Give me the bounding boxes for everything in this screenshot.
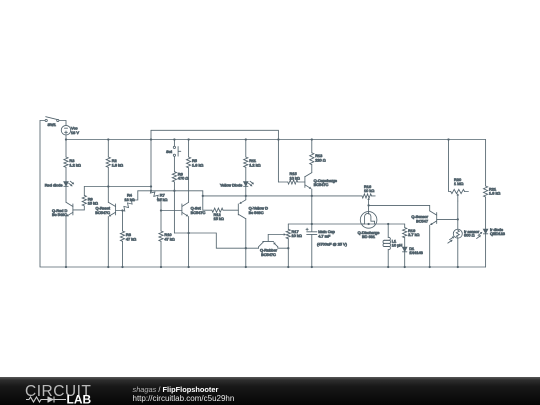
wire R3 to red diode (65, 167, 67, 181)
transistor Q-Red D Bc546C (52, 202, 84, 217)
node Q-Sensor emitter ground (429, 266, 431, 268)
wire Q-Red emitter to ground (65, 217, 67, 267)
wire left rail and ground rail (40, 121, 486, 268)
svg-text:QED123: QED123 (490, 231, 505, 236)
svg-text:470 Ω: 470 Ω (178, 176, 189, 181)
wire capcharge column to cap (311, 196, 313, 231)
potentiometer R16 10k (362, 184, 375, 198)
wire Q-Capcharge emitter to wire C (311, 189, 313, 196)
node wireA-R2 (107, 185, 109, 187)
wire R15 to Q-Capcharge base (298, 181, 305, 183)
resistor R6 470ohm (172, 171, 188, 182)
node bypass right drop rail junction (277, 138, 279, 140)
wire Q-Sensor emitter to ground (429, 225, 431, 267)
node R10 ground (160, 266, 162, 268)
node R2-rail (107, 138, 109, 140)
transistor Q-Yellow D Bc546C (238, 200, 268, 219)
transistor Q-Set BC547C (182, 202, 206, 216)
resistor R8 47k (120, 231, 136, 241)
wire red diode to Q-Red collector (65, 187, 67, 203)
wire R2 column (107, 140, 109, 203)
wire Q-Set emitter to ground (188, 217, 190, 267)
wire Q-Rubber base to R17 wiper arrow (268, 234, 284, 236)
svg-text:600 Ω: 600 Ω (464, 233, 475, 238)
pushbutton Set (166, 140, 181, 157)
svg-text:SW1: SW1 (48, 122, 56, 127)
wire L1 leads (387, 224, 389, 267)
inductor L1 10uH (383, 237, 402, 249)
wire R20 wiper to sensor column (457, 196, 459, 202)
wire R17 top lead (287, 224, 289, 229)
node wireD-cap column (311, 223, 313, 225)
resistor R13 220ohm (310, 153, 326, 165)
node R17 ground (287, 266, 289, 268)
node Q-Yellow emitter ground (245, 266, 247, 268)
wire R4 to wire B (134, 191, 138, 200)
wire set bypass top line (151, 130, 278, 182)
svg-text:Yellow Diode: Yellow Diode (220, 183, 242, 188)
wire set column down (173, 156, 175, 233)
wire R8 column (122, 211, 124, 268)
svg-text:10 kΩ: 10 kΩ (292, 233, 302, 238)
node D1 ground (404, 266, 406, 268)
node Q-Reset emitter ground (107, 266, 109, 268)
wire Q-Reset emitter to ground (107, 217, 109, 267)
svg-text:BC547: BC547 (416, 218, 428, 223)
node R13-rail (311, 138, 313, 140)
svg-text:18 kΩ: 18 kΩ (124, 197, 134, 202)
wire discharge base to Q-Sensor collector (369, 205, 430, 211)
svg-text:18 V: 18 V (71, 130, 79, 135)
node cap ground (311, 266, 313, 268)
node col151-rail (150, 138, 152, 140)
svg-text:BC547C: BC547C (261, 252, 276, 257)
wire column 151 from bypass to wire B (150, 130, 152, 191)
wire R17 to ground (287, 239, 289, 267)
LED D-Yellow yellow diode (220, 181, 254, 187)
photoresistor Ir sensor 600ohm (448, 229, 480, 243)
resistor R7 18k diagonal (150, 191, 167, 202)
resistor R19 2.7k (403, 228, 420, 238)
node Q-Set base junction (160, 209, 162, 211)
node R8 ground (121, 266, 123, 268)
node R20-rail (447, 138, 449, 140)
svg-text:1 MΩ: 1 MΩ (454, 181, 463, 186)
transistor Q-Capcharge BC547C (305, 173, 337, 189)
wire bypass drop to R15 (278, 181, 287, 183)
node R17-rubber junction (287, 247, 289, 249)
node wireC start (202, 195, 204, 197)
svg-text:18 kΩ: 18 kΩ (157, 197, 167, 202)
svg-text:Set: Set (166, 149, 173, 154)
wire sensor to ground (457, 238, 459, 267)
svg-text:10 µH: 10 µH (392, 243, 403, 248)
svg-text:47 kΩ: 47 kΩ (126, 236, 136, 241)
trimmer R17 10k (286, 229, 302, 239)
svg-text:Red diode: Red diode (45, 182, 63, 187)
svg-text:Bc 546C: Bc 546C (249, 210, 264, 215)
wire Ir diode to ground rail end (485, 234, 487, 267)
node L1 ground (387, 266, 389, 268)
svg-text:1.8 kΩ: 1.8 kΩ (112, 162, 123, 167)
svg-text:1.8 kΩ: 1.8 kΩ (192, 162, 203, 167)
wire source to rail (65, 135, 67, 157)
resistor R2 1.8k (106, 157, 123, 167)
wire node C horizontal (203, 195, 362, 197)
wire R10 column (160, 211, 162, 268)
transistor Q-Discharge BD681 darlington (358, 212, 380, 240)
potentiometer R20 1M (451, 177, 469, 194)
resistor R5 1.8k (187, 157, 204, 168)
node wireB-col151 (150, 190, 152, 192)
resistor R3 1.2k (64, 157, 81, 167)
svg-text:2.7 kΩ: 2.7 kΩ (408, 232, 419, 237)
node source-rail junction (65, 138, 67, 140)
wire wireD corner to R19 and to D1 (404, 224, 406, 247)
node set-rail (173, 138, 175, 140)
wire R21 column (485, 140, 487, 229)
wire cap to ground (311, 235, 313, 267)
svg-text:220 Ω: 220 Ω (315, 157, 326, 162)
node sensor ground (457, 266, 459, 268)
node Q-Set emitter ground (187, 266, 189, 268)
node R5-rail (187, 138, 189, 140)
svg-text:4.7 mF: 4.7 mF (318, 233, 331, 238)
wire R7 to Q-Set base (161, 201, 182, 211)
node wireD-L1 (387, 223, 389, 225)
node wireA-col151 (150, 185, 152, 187)
wire node A horizontal (R9 to col151) (84, 186, 151, 188)
node wireC-yellow column (245, 195, 247, 197)
diode D1 1N4148 (403, 246, 423, 255)
wire R16 wiper to Q-Discharge base (368, 200, 370, 206)
svg-text:(4700uF @ 25 V): (4700uF @ 25 V) (317, 242, 348, 247)
transistor Q-Reset BC547C (95, 202, 122, 216)
wire node D horizontal (288, 223, 404, 225)
wire yellow diode to Q-Yellow (245, 187, 247, 200)
wire set column to staircase (174, 233, 258, 248)
wire R20 column from rail (449, 140, 451, 192)
resistor R15 10k (288, 171, 300, 184)
svg-text:1N4148: 1N4148 (409, 250, 423, 255)
LED Ir diode QED123 (477, 227, 505, 239)
resistor R4 18k diagonal (123, 192, 135, 211)
node wireC-capcharge emitter (311, 195, 313, 197)
svg-text:BD 681: BD 681 (362, 234, 375, 239)
node yellow emitter crossing y248 (245, 247, 247, 249)
wire top rail (66, 139, 486, 141)
svg-text:15 kΩ: 15 kΩ (214, 216, 224, 221)
svg-text:Bc 546C: Bc 546C (52, 212, 67, 217)
wire R12 to Q-Yellow base (223, 209, 238, 211)
svg-text:LAB: LAB (67, 393, 92, 405)
wire switch to source (59, 121, 66, 126)
wire column 202.8 and R12 feed (203, 191, 212, 210)
wire R5 column (188, 140, 190, 203)
svg-text:1.2 kΩ: 1.2 kΩ (249, 162, 260, 167)
node Q-Red emitter ground (65, 266, 67, 268)
switch SW1 (45, 117, 59, 127)
LED D-Red red diode (45, 181, 74, 187)
node wiper-sensor wire junction (367, 204, 369, 206)
node wireB-set column (173, 190, 175, 192)
wire D1 to ground (404, 252, 406, 267)
wire Q-Yellow emitter to ground (245, 219, 247, 267)
resistor R12 15k (212, 208, 224, 221)
wire switch feed (40, 120, 45, 122)
svg-text:BC547C: BC547C (314, 182, 329, 187)
svg-text:BC547C: BC547C (95, 210, 110, 215)
resistor R9 15k (82, 195, 98, 206)
node emitter crossing y233 (187, 232, 189, 234)
svg-text:10 kΩ: 10 kΩ (290, 175, 300, 180)
transistor Q-Sensor BC547 (411, 211, 457, 225)
svg-text:47 kΩ: 47 kΩ (164, 236, 174, 241)
node wireD-discharge emitter (367, 223, 369, 225)
voltage source V1 Vcc 18V (61, 125, 79, 135)
svg-text:1.2 kΩ: 1.2 kΩ (69, 162, 80, 167)
CircuitLab logo wire with resistor and diode (26, 397, 66, 403)
svg-text:1.8 kΩ: 1.8 kΩ (489, 191, 500, 196)
wire R13 column (311, 140, 313, 173)
svg-text:10 kΩ: 10 kΩ (364, 188, 374, 193)
resistor R11 1.2k (244, 157, 261, 167)
resistor R21 1.8k (484, 186, 501, 197)
node R11-rail (245, 138, 247, 140)
wire R11 column (245, 140, 247, 182)
node sensor base junction (457, 218, 459, 220)
resistor R10 47k (159, 231, 175, 241)
node Q-Reset base junction (121, 209, 123, 211)
wire node B horizontal (138, 190, 203, 192)
transistor Q-Rubber BC547C rotated (259, 235, 289, 257)
wire R9 leads (83, 187, 85, 210)
capacitor Main Cap 4.7mF (306, 228, 348, 246)
